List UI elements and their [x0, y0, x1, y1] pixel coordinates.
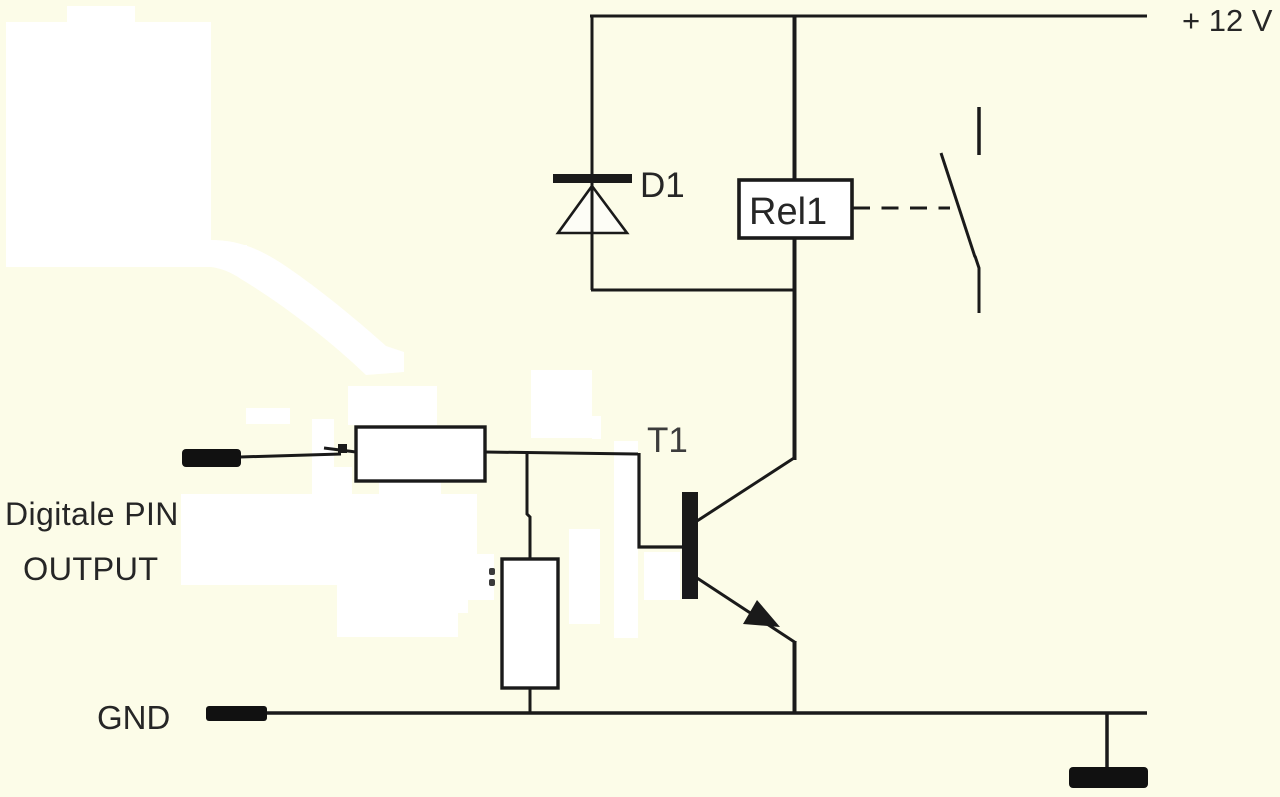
transistor T1 emitter arrowhead	[743, 600, 780, 627]
svg-text:GND: GND	[97, 699, 170, 736]
transistor T1 base bar	[682, 492, 698, 599]
GND pin terminal	[206, 706, 267, 721]
wire: node A to base elbow	[639, 453, 682, 547]
svg-text:Rel1: Rel1	[749, 191, 827, 233]
wire: node A down to R2	[527, 451, 530, 559]
wire: collector diagonal	[697, 458, 794, 521]
diode D1 cathode bar	[553, 174, 632, 183]
wire: diode bottom to relay vertical	[591, 289, 796, 292]
+12V rail	[590, 15, 1147, 18]
wire: rail through diode D1 to bottom elbow	[591, 15, 594, 290]
diode D1 anode triangle	[558, 186, 627, 233]
ground rail GND	[258, 711, 1147, 715]
resistor R2 (pulldown)	[502, 559, 558, 688]
wire through diode triangle	[591, 183, 594, 233]
wire tick on input wire	[338, 444, 347, 453]
svg-text:Digitale PIN: Digitale PIN	[5, 496, 179, 532]
wire: emitter diagonal	[697, 578, 796, 643]
wire: R1 to node A	[485, 452, 638, 454]
wire: relay branch from rail to Rel1	[793, 15, 797, 180]
svg-text:T1: T1	[647, 421, 688, 460]
input pin terminal	[182, 449, 241, 467]
resistor R1 (base series)	[356, 427, 485, 481]
switch contact upper terminal	[977, 107, 981, 155]
svg-text:D1: D1	[640, 166, 685, 205]
svg-text:+ 12 V: + 12 V	[1182, 3, 1273, 38]
wire: ground stub	[1105, 713, 1109, 769]
wire: emitter down to ground rail	[793, 641, 797, 713]
wire: Rel1 bottom to collector elbow	[793, 237, 797, 460]
switch lower terminal	[975, 256, 979, 313]
wire: R2 bottom to ground rail	[529, 687, 532, 713]
leftover value mark	[489, 568, 495, 575]
wire: input pin to R1	[240, 454, 341, 457]
svg-text:OUTPUT: OUTPUT	[23, 551, 158, 587]
white erased patches (background artifacts)	[6, 6, 680, 638]
earth ground bar	[1069, 767, 1148, 788]
dashed actuation link Rel1 to switch	[853, 207, 950, 210]
switch blade	[941, 153, 975, 257]
relay coil box Rel1	[739, 180, 852, 238]
